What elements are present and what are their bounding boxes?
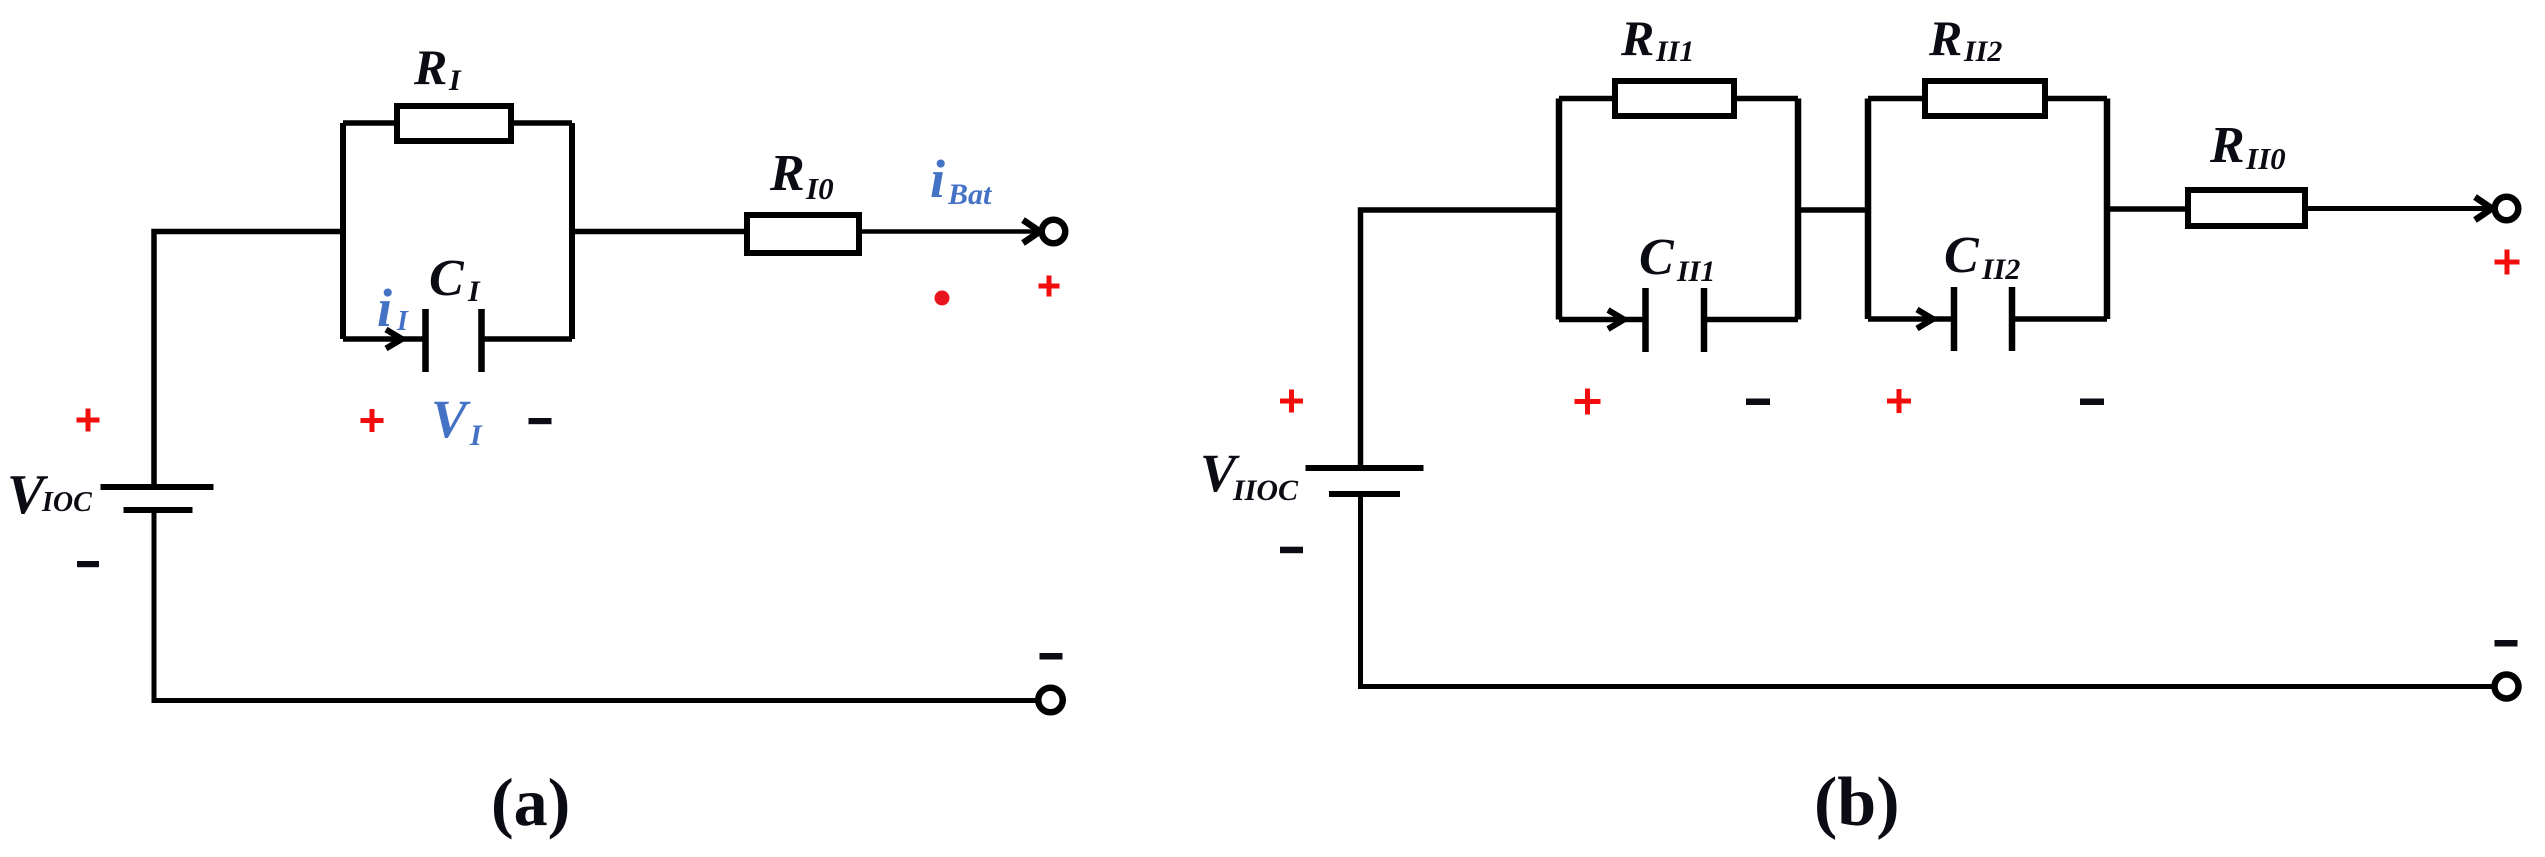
plus sign at output terminal (b) (red) — [2495, 250, 2520, 275]
wire: bottom branch to capacitor C_II2 — [1868, 316, 1955, 322]
svg-text:C: C — [429, 250, 465, 307]
svg-text:I0: I0 — [805, 171, 834, 206]
svg-text:C: C — [1944, 227, 1980, 284]
red dot node (a) — [935, 291, 950, 306]
label C_II1 — [1639, 229, 1715, 288]
plus sign above battery (a) (red) — [77, 409, 100, 432]
svg-text:R: R — [769, 145, 805, 202]
arrow i_I on capacitor branch — [386, 330, 402, 349]
wire: mid node to resistor R_I0 — [572, 229, 750, 235]
label V_IOC — [7, 464, 92, 526]
label C_I — [429, 250, 481, 308]
arrow on capacitor C_II1 branch — [1608, 310, 1624, 329]
minus sign above bottom terminal (a) — [1040, 653, 1063, 660]
wire: top branch to resistor R_I — [343, 120, 400, 126]
wire: RC loop 1 right vertical — [1795, 99, 1802, 320]
wire: RC loop left vertical (a) — [340, 123, 346, 339]
wire: resistor R_II0 to output terminal (b) — [2302, 206, 2492, 211]
wire: RC loop right vertical (a) — [569, 123, 575, 339]
minus sign below battery (b) — [1280, 547, 1303, 554]
wire: resistor R_II2 to right vertical — [2042, 96, 2107, 102]
minus sign above bottom terminal (b) — [2495, 640, 2518, 647]
label V_I (blue) — [431, 389, 483, 452]
resistor R_I — [397, 106, 511, 141]
svg-text:R: R — [2209, 117, 2245, 174]
node: top output terminal circle (a) — [1042, 220, 1066, 244]
minus sign right of capacitor C_II1 — [1746, 399, 1770, 406]
label R_I — [413, 39, 462, 97]
wire: bottom branch to capacitor C_I — [343, 336, 426, 342]
caption (a) — [491, 764, 570, 840]
wire: node between RC loop 1 and RC loop 2 — [1798, 207, 1868, 213]
svg-text:i: i — [930, 149, 945, 209]
svg-text:II2: II2 — [1981, 253, 2020, 286]
wire: top branch to resistor R_II1 — [1559, 96, 1618, 102]
svg-text:Bat: Bat — [947, 178, 993, 211]
label V_IIOC — [1200, 443, 1299, 507]
wire: RC loop 2 right vertical — [2104, 99, 2111, 320]
wire: capacitor C_II2 to right vertical — [2012, 316, 2107, 322]
capacitor C_II2 left plate — [1951, 287, 1958, 351]
battery V_IIOC short plate — [1329, 491, 1400, 497]
svg-text:II0: II0 — [2245, 141, 2286, 176]
node: top output terminal circle (b) — [2495, 197, 2519, 221]
label R_I0 — [769, 145, 834, 206]
plus sign left of V_I (red) — [361, 409, 384, 432]
battery V_IOC short plate — [124, 507, 193, 513]
wire: battery V_IOC positive terminal up to top node — [154, 232, 345, 488]
svg-text:C: C — [1639, 229, 1675, 286]
svg-text:I: I — [396, 306, 409, 337]
wire: resistor R_I to right vertical — [508, 120, 572, 126]
svg-text:(b): (b) — [1814, 764, 1900, 841]
svg-text:II1: II1 — [1676, 255, 1715, 288]
capacitor C_I right plate — [478, 309, 485, 372]
svg-text:IIOC: IIOC — [1232, 474, 1299, 507]
capacitor C_I left plate — [422, 309, 429, 372]
label R_II1 — [1620, 10, 1694, 68]
svg-text:I: I — [467, 275, 481, 308]
wire: capacitor C_II1 to right vertical — [1704, 317, 1798, 323]
minus sign right of V_I — [529, 418, 552, 424]
capacitor C_II1 left plate — [1642, 288, 1649, 352]
wire: RC loop 2 left vertical — [1865, 99, 1872, 320]
label R_II2 — [1928, 10, 2002, 68]
wire: top branch to resistor R_II2 — [1868, 96, 1928, 102]
svg-text:R: R — [1620, 10, 1654, 66]
wire: RC loop 2 to resistor R_II0 — [2107, 206, 2191, 212]
wire: RC loop 1 left vertical — [1556, 99, 1563, 320]
capacitor C_II2 right plate — [2009, 287, 2016, 351]
node: bottom output terminal circle (a) — [1038, 688, 1063, 713]
resistor R_II1 — [1615, 81, 1734, 116]
svg-text:i: i — [377, 278, 392, 338]
plus sign under capacitor C_II1 (red) — [1575, 389, 1601, 415]
wire: resistor R_II1 to right vertical — [1731, 96, 1798, 102]
svg-text:I: I — [448, 64, 462, 97]
caption (b) — [1814, 764, 1900, 841]
wire: battery negative down and bottom return wire — [154, 510, 1039, 701]
svg-text:V: V — [431, 389, 471, 449]
capacitor C_II1 right plate — [1701, 288, 1708, 352]
svg-text:(a): (a) — [491, 764, 570, 840]
wire: capacitor C_I to right vertical — [481, 336, 572, 342]
svg-text:IOC: IOC — [41, 487, 92, 518]
arrow on capacitor C_II2 branch — [1917, 310, 1933, 329]
label R_II0 — [2209, 117, 2286, 176]
plus sign above battery (b) (red) — [1280, 390, 1303, 413]
label i_I (blue) — [377, 278, 409, 338]
battery V_IOC long plate — [101, 484, 214, 490]
label C_II2 — [1944, 227, 2020, 286]
arrow i_Bat at output terminal (a) — [1023, 220, 1040, 243]
svg-text:R: R — [413, 39, 447, 95]
resistor R_II2 — [1925, 81, 2045, 116]
node: bottom output terminal circle (b) — [2495, 675, 2519, 699]
minus sign right of capacitor C_II2 — [2080, 399, 2104, 406]
arrow at output terminal (b) — [2475, 197, 2492, 220]
battery V_IIOC long plate — [1306, 465, 1424, 471]
wire: bottom branch to capacitor C_II1 — [1559, 317, 1646, 323]
svg-text:I: I — [469, 419, 483, 452]
svg-text:R: R — [1928, 10, 1962, 66]
svg-text:II1: II1 — [1655, 35, 1694, 68]
plus sign under capacitor C_II2 (red) — [1887, 389, 1911, 413]
svg-text:II2: II2 — [1963, 35, 2002, 68]
label i_Bat (blue) — [930, 149, 993, 211]
resistor R_II0 — [2188, 190, 2305, 226]
plus sign at output terminal (a) (red) — [1039, 276, 1060, 297]
wire: battery negative down and bottom return wire (b) — [1361, 494, 2493, 687]
minus sign below battery (a) — [77, 561, 99, 567]
wire: battery V_IIOC positive terminal up to top node — [1361, 210, 1563, 468]
wire: resistor R_I0 to output terminal — [856, 229, 1040, 234]
resistor R_I0 — [747, 215, 859, 253]
